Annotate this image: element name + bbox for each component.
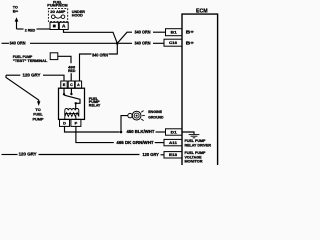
svg-text:ENGINE: ENGINE (148, 109, 162, 114)
wire 340 ORN bus left (2, 42, 10, 44)
svg-text:E: E (63, 82, 66, 87)
wire 450 into D1 (156, 131, 166, 133)
svg-text:340 ORN: 340 ORN (135, 41, 152, 46)
wire 465 from relay F (76, 126, 114, 142)
wire 340 ORN down to relay A (109, 43, 118, 54)
wire 120 GRY left end (6, 74, 20, 76)
svg-text:GROUND: GROUND (148, 114, 163, 119)
svg-text:MONITOR: MONITOR (185, 159, 203, 164)
svg-text:C: C (70, 82, 73, 87)
svg-text:120 GRY: 120 GRY (142, 152, 159, 157)
svg-text:120 GRY: 120 GRY (23, 73, 41, 78)
test terminal connector (50, 53, 58, 60)
wire 2 RED from B+ (15, 17, 24, 29)
relay contact C (70, 88, 72, 93)
svg-text:20 AMP: 20 AMP (50, 9, 65, 14)
svg-text:D1: D1 (171, 129, 178, 134)
relay contact E (63, 88, 65, 93)
engine ground lug (128, 113, 132, 117)
relay terminal F (71, 119, 81, 126)
wire 450 from relay D (65, 126, 120, 132)
svg-text:B+: B+ (186, 30, 195, 35)
svg-text:2 RED: 2 RED (25, 27, 36, 32)
wire 340 ORN elbow to relay A (80, 54, 92, 81)
svg-text:B1: B1 (171, 30, 178, 35)
ECM internal ground (182, 132, 194, 134)
wire 340 ORN from fuse A (64, 30, 118, 44)
ECM pin D1 (166, 129, 183, 135)
wire 120 GRY monitor left (2, 154, 18, 156)
wire ground lug to 450 (121, 116, 128, 132)
wire 465 into A11 (155, 142, 164, 144)
svg-text:120 GRY: 120 GRY (19, 152, 37, 157)
relay coil link (75, 103, 77, 109)
node junction 340 ORN (116, 42, 119, 45)
svg-text:B+: B+ (13, 8, 19, 13)
relay terminal E (61, 81, 67, 88)
svg-text:340 ORN: 340 ORN (92, 53, 109, 58)
svg-text:450 BLK/WHT: 450 BLK/WHT (127, 129, 156, 134)
ECM pin C16 (164, 39, 182, 46)
svg-text:E13: E13 (169, 152, 178, 157)
wire 340 ORN bus to junction (30, 42, 116, 44)
relay K1 body (59, 88, 85, 119)
ECM module box (182, 14, 218, 165)
svg-text:RELAY DRIVER: RELAY DRIVER (185, 142, 212, 147)
relay terminal C (68, 81, 74, 88)
svg-text:A: A (77, 82, 80, 87)
ECM pin B1 (166, 29, 183, 36)
wire 340 ORN to ECM B1 (117, 32, 132, 43)
svg-text:PUMP: PUMP (33, 117, 44, 122)
svg-text:A: A (62, 24, 65, 29)
svg-text:465 DK GRN/WHT: 465 DK GRN/WHT (116, 140, 154, 145)
relay switch arm (64, 95, 80, 103)
svg-text:D: D (63, 120, 66, 125)
wire to fuel pump (arrow) (6, 75, 39, 101)
relay coil (65, 109, 79, 111)
relay coil legs (64, 116, 66, 119)
wire 490 RED upper (58, 56, 71, 63)
node ground junction (120, 131, 123, 134)
svg-text:340 ORN: 340 ORN (10, 41, 27, 46)
svg-text:HOOD: HOOD (72, 13, 83, 18)
wire 340 ORN into B1 (153, 31, 166, 33)
relay terminal A (75, 81, 81, 88)
svg-text:B+: B+ (186, 40, 195, 45)
fuse terminal A (59, 22, 68, 29)
svg-text:RED: RED (68, 68, 76, 73)
ECM pin A11 (164, 139, 182, 145)
svg-text:“TEST” TERMINAL: “TEST” TERMINAL (13, 58, 48, 63)
svg-text:A11: A11 (169, 140, 178, 145)
wire 120 GRY into E13 (161, 154, 165, 156)
svg-text:340 ORN: 340 ORN (135, 30, 152, 35)
wire 120 GRY monitor mid (39, 154, 140, 156)
svg-text:PUMP/ECM: PUMP/ECM (47, 3, 67, 8)
wire 340 ORN to ECM C16 (119, 42, 132, 44)
relay terminal D (60, 119, 70, 126)
svg-text:RELAY: RELAY (89, 103, 101, 108)
wire 340 ORN into C16 (153, 42, 164, 44)
wire 120 GRY to relay E (43, 75, 64, 81)
fuse F1 20 AMP (48, 9, 67, 22)
ECM pin E13 (164, 152, 182, 158)
wire 2 RED to fuse (37, 28, 51, 30)
svg-text:ECM: ECM (196, 8, 208, 14)
svg-text:C16: C16 (169, 40, 178, 45)
fuse terminal (input) (50, 22, 58, 29)
wire 490 RED to relay C (70, 73, 72, 81)
